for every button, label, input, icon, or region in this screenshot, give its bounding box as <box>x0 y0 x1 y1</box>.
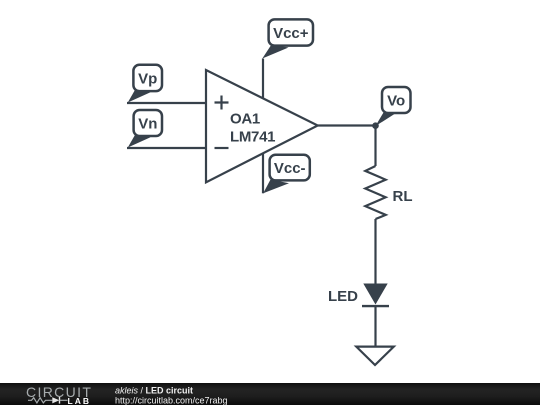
CircuitLab logo diode <box>52 397 59 403</box>
op-amp plus input marker <box>215 96 229 110</box>
wire RL to LED <box>374 219 376 284</box>
CircuitLab logo resistor zigzag <box>28 398 52 403</box>
wire Vcc+ supply <box>262 59 264 99</box>
wire output down to RL <box>374 126 376 167</box>
LED cathode bar <box>362 305 389 307</box>
svg-text:akleis / LED circuit: akleis / LED circuit <box>115 386 193 396</box>
wire LED to ground <box>374 306 376 347</box>
net flag Vp <box>128 65 162 103</box>
wire Vn input <box>127 147 206 149</box>
net flag Vcc- <box>263 155 310 194</box>
wire Vp input <box>127 102 206 104</box>
net flag Vn <box>128 110 162 148</box>
wire Vcc- supply <box>262 153 264 193</box>
net flag Vcc+ <box>262 19 313 58</box>
op-amp U1 body <box>206 70 318 182</box>
op-amp minus input marker <box>215 147 229 149</box>
LED anode triangle <box>363 284 387 305</box>
resistor RL <box>365 166 385 219</box>
CircuitLab logo diode bar <box>59 397 61 404</box>
wire op-amp output <box>318 124 376 126</box>
svg-text:LAB: LAB <box>68 396 91 405</box>
CircuitLab logo wire to LAB <box>60 399 68 401</box>
ground <box>356 347 394 365</box>
net flag Vo <box>375 87 410 126</box>
node junction at Vo <box>372 122 379 129</box>
footer bar <box>0 383 540 405</box>
svg-text:http://circuitlab.com/ce7rabg: http://circuitlab.com/ce7rabg <box>115 396 228 405</box>
